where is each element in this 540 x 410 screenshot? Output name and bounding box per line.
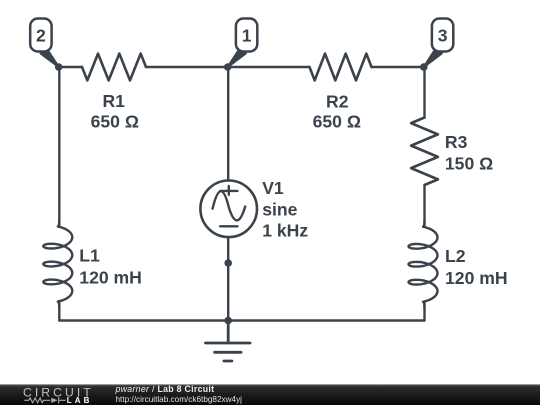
wire bottom — [59, 319, 424, 321]
logo diode triangle — [51, 398, 57, 403]
svg-text:650 Ω: 650 Ω — [91, 111, 139, 131]
resistor R2 — [310, 54, 372, 81]
svg-text:R3: R3 — [445, 132, 468, 152]
inductor L1 — [43, 221, 72, 308]
wire top: R1 to node1 — [146, 66, 310, 68]
wire left vertical — [58, 67, 60, 226]
svg-text:sine: sine — [262, 199, 297, 219]
svg-text:3: 3 — [438, 26, 448, 46]
svg-text:120 mH: 120 mH — [445, 268, 508, 288]
svg-text:V1: V1 — [262, 178, 284, 198]
voltage source V1 circle — [200, 181, 257, 238]
svg-text:2: 2 — [36, 26, 46, 46]
V1 minus sign — [220, 225, 237, 227]
wire center: node1 to V1 — [227, 67, 229, 180]
inductor L2 — [409, 221, 438, 308]
wire left lower — [58, 301, 60, 321]
junction dot node 2 — [55, 63, 63, 71]
logo schematic glyph — [24, 397, 65, 403]
svg-text:R1: R1 — [102, 91, 125, 111]
footer bar — [0, 384, 540, 405]
svg-text:1: 1 — [242, 26, 252, 46]
resistor R3 — [411, 118, 438, 186]
wire right vertical upper — [423, 67, 425, 118]
ground — [206, 321, 251, 362]
V1 sine wave — [213, 191, 246, 220]
wire top: node2 to R1 — [59, 66, 82, 68]
node flag 2 — [30, 19, 59, 68]
junction dot node 3 — [420, 63, 428, 71]
svg-text:1 kHz: 1 kHz — [262, 221, 308, 241]
wire right lower — [423, 302, 425, 321]
junction dot node 1 — [224, 63, 232, 71]
wire top: R2 to node3 — [372, 66, 425, 68]
junction dot V1 bottom — [224, 259, 232, 267]
svg-text:120 mH: 120 mH — [79, 267, 142, 287]
svg-text:http://circuitlab.com/ck6tbg82: http://circuitlab.com/ck6tbg82xw4yj — [116, 395, 243, 404]
svg-text:LAB: LAB — [67, 396, 93, 405]
resistor R1 — [82, 54, 146, 81]
svg-text:L1: L1 — [79, 245, 100, 265]
V1 plus sign — [220, 186, 237, 195]
svg-text:L2: L2 — [445, 246, 466, 266]
svg-text:150 Ω: 150 Ω — [445, 153, 493, 173]
junction dot ground — [224, 317, 232, 325]
wire center: V1 to ground — [227, 237, 229, 320]
wire right middle — [423, 185, 425, 227]
svg-text:650 Ω: 650 Ω — [313, 111, 361, 131]
node flag 1 — [228, 19, 258, 68]
node flag 3 — [424, 19, 454, 68]
svg-text:R2: R2 — [326, 91, 349, 111]
svg-text:pwarner / Lab 8 Circuit: pwarner / Lab 8 Circuit — [115, 384, 215, 394]
